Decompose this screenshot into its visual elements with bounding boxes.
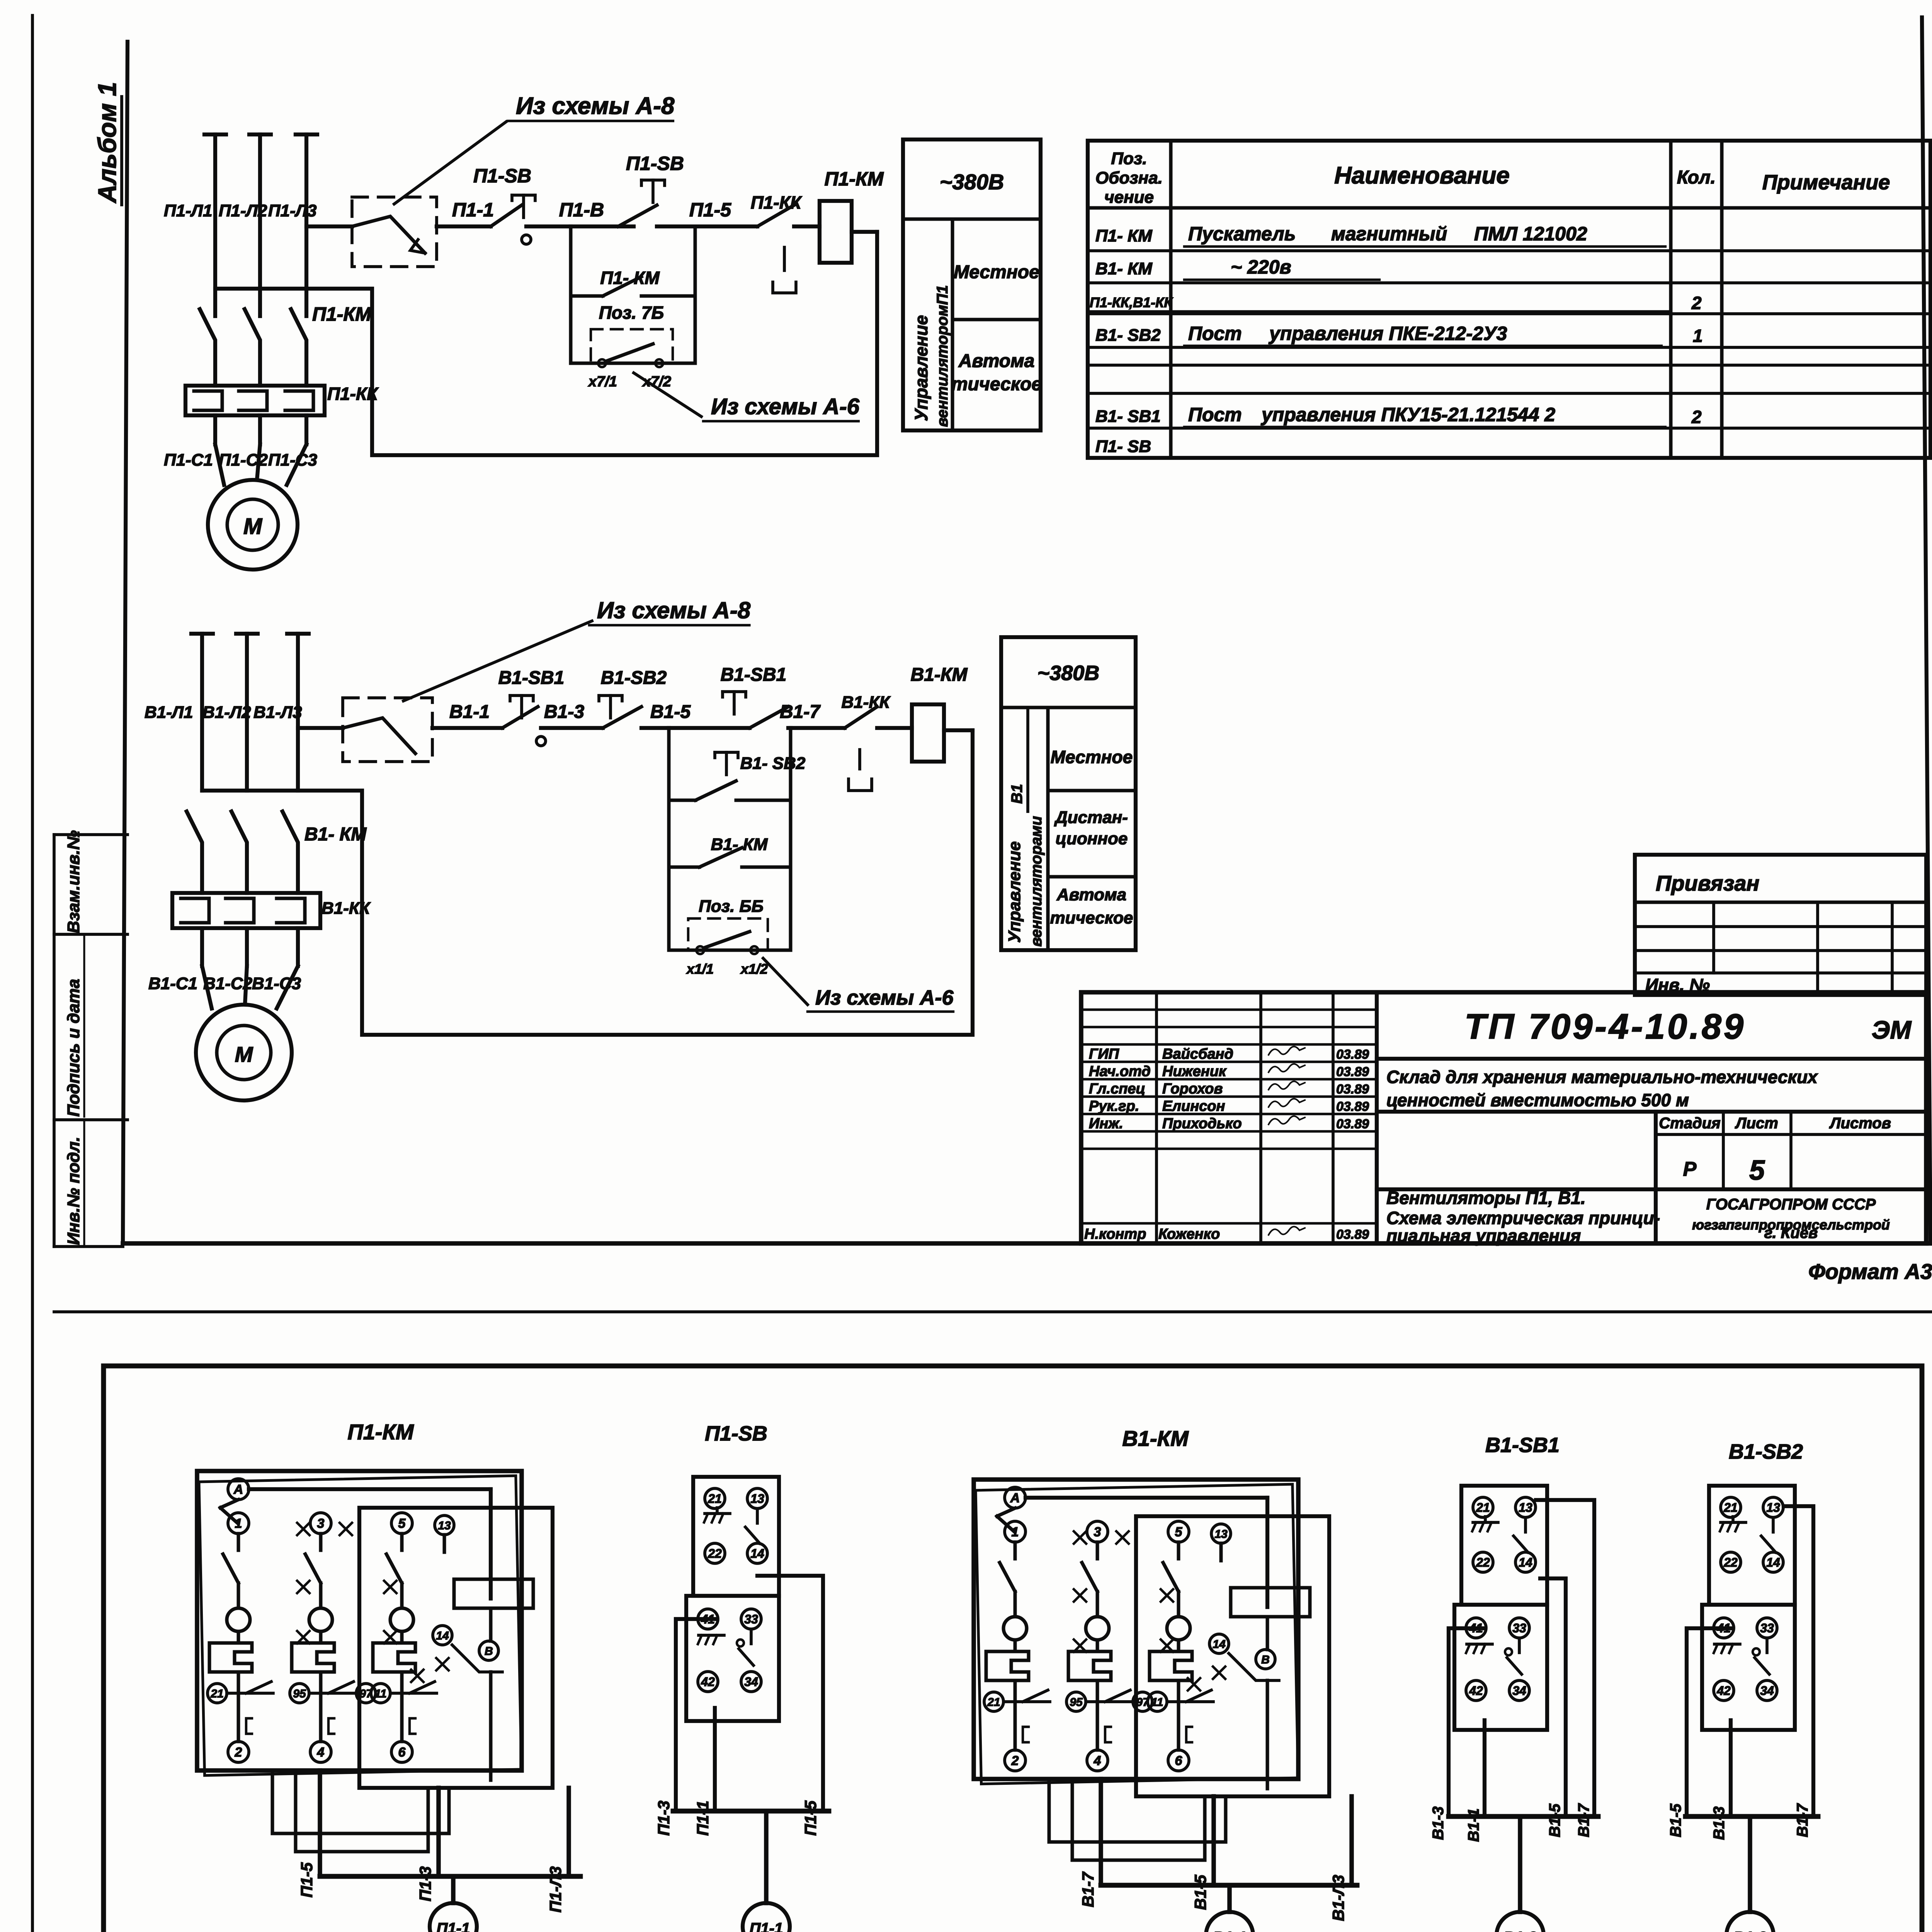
svg-text:21: 21 — [1476, 1501, 1490, 1515]
svg-text:вентиляторомП1: вентиляторомП1 — [934, 285, 951, 427]
svg-text:2: 2 — [1691, 293, 1702, 313]
svg-text:34: 34 — [744, 1675, 758, 1689]
svg-text:Коженко: Коженко — [1158, 1226, 1220, 1242]
svg-text:21: 21 — [210, 1687, 223, 1700]
svg-text:95: 95 — [1070, 1696, 1083, 1709]
svg-text:14: 14 — [1766, 1556, 1780, 1570]
svg-text:Р: Р — [1683, 1158, 1697, 1180]
svg-text:21: 21 — [987, 1696, 1000, 1709]
svg-text:Формат А3: Формат А3 — [1808, 1259, 1932, 1284]
svg-text:Склад для хранения материальн: Склад для хранения материально-техническ… — [1386, 1067, 1818, 1087]
svg-text:В1-5: В1-5 — [1667, 1803, 1684, 1837]
svg-text:97: 97 — [1136, 1696, 1150, 1709]
svg-text:ЭМ: ЭМ — [1872, 1015, 1912, 1044]
svg-text:В1- КМ: В1- КМ — [1095, 259, 1153, 278]
svg-text:97: 97 — [359, 1687, 373, 1700]
svg-text:В1-5: В1-5 — [1546, 1803, 1563, 1837]
svg-text:~ 220в: ~ 220в — [1231, 256, 1291, 278]
svg-text:М: М — [243, 514, 263, 539]
svg-text:М: М — [235, 1042, 253, 1066]
svg-text:П1-Л3: П1-Л3 — [268, 201, 316, 220]
svg-text:В1- SВ2: В1- SВ2 — [1095, 326, 1161, 345]
svg-text:В1: В1 — [1009, 784, 1026, 804]
svg-text:03.89: 03.89 — [1336, 1227, 1369, 1242]
svg-text:Вайсбанд: Вайсбанд — [1162, 1046, 1233, 1062]
svg-text:В1-SВ1: В1-SВ1 — [721, 665, 787, 685]
svg-text:Пускатель: Пускатель — [1188, 223, 1296, 245]
svg-text:13: 13 — [1214, 1528, 1228, 1541]
svg-text:В1-Л1: В1-Л1 — [145, 703, 193, 722]
svg-text:В: В — [485, 1645, 493, 1658]
svg-text:В1-7: В1-7 — [1079, 1871, 1097, 1907]
svg-text:П1-КК: П1-КК — [751, 192, 802, 213]
svg-text:х1/2: х1/2 — [740, 961, 768, 977]
svg-text:В1-Л3: В1-Л3 — [1329, 1875, 1347, 1921]
svg-text:Местное: Местное — [954, 262, 1039, 282]
svg-text:В1-КМ: В1-КМ — [1122, 1426, 1189, 1451]
svg-text:В1- КМ: В1- КМ — [304, 824, 367, 845]
svg-text:Из схемы А-8: Из схемы А-8 — [516, 93, 675, 119]
svg-text:21: 21 — [1723, 1501, 1738, 1515]
svg-text:П1-SВ: П1-SВ — [626, 153, 684, 174]
svg-text:П1-Л2: П1-Л2 — [219, 201, 267, 220]
svg-text:В1-1: В1-1 — [1213, 1929, 1247, 1932]
svg-text:Листов: Листов — [1829, 1115, 1891, 1132]
svg-text:П1-5: П1-5 — [801, 1800, 820, 1836]
svg-text:управления ПКУ15-21.121544 2: управления ПКУ15-21.121544 2 — [1260, 404, 1555, 425]
svg-text:33: 33 — [1512, 1621, 1526, 1635]
svg-text:В1-3: В1-3 — [1430, 1806, 1447, 1840]
svg-text:В1-КК: В1-КК — [321, 899, 371, 918]
svg-text:В1-3: В1-3 — [1711, 1806, 1728, 1840]
svg-text:П1-1: П1-1 — [694, 1801, 712, 1836]
svg-text:В1-2: В1-2 — [1503, 1929, 1537, 1932]
svg-text:В1-SВ1: В1-SВ1 — [1485, 1434, 1560, 1457]
svg-text:Вентиляторы П1, В1.: Вентиляторы П1, В1. — [1386, 1188, 1586, 1208]
svg-text:В1- SВ2: В1- SВ2 — [740, 754, 806, 773]
svg-text:5: 5 — [1749, 1155, 1765, 1186]
svg-text:13: 13 — [438, 1519, 451, 1532]
svg-text:В: В — [1261, 1653, 1270, 1666]
svg-text:Поз. 7Б: Поз. 7Б — [599, 303, 664, 323]
svg-text:22: 22 — [707, 1547, 722, 1561]
svg-text:03.89: 03.89 — [1336, 1047, 1369, 1062]
svg-text:Из схемы А-6: Из схемы А-6 — [815, 986, 954, 1009]
svg-text:34: 34 — [1760, 1684, 1774, 1698]
svg-text:13: 13 — [1766, 1501, 1780, 1515]
svg-text:В1-SВ2: В1-SВ2 — [1729, 1440, 1803, 1463]
svg-text:2: 2 — [1011, 1753, 1019, 1768]
svg-text:Пост: Пост — [1188, 404, 1242, 425]
svg-text:Управление: Управление — [1005, 841, 1024, 943]
svg-text:14: 14 — [1519, 1556, 1532, 1570]
svg-text:Поз. ББ: Поз. ББ — [699, 897, 764, 916]
svg-text:чение: чение — [1104, 188, 1154, 207]
svg-text:1: 1 — [1693, 326, 1703, 346]
svg-text:22: 22 — [1723, 1556, 1738, 1570]
svg-text:Нач.отд: Нач.отд — [1089, 1063, 1151, 1080]
svg-text:П1-КМ: П1-КМ — [825, 168, 884, 190]
svg-text:~380В: ~380В — [1037, 662, 1100, 685]
svg-text:П1-КК,В1-КК: П1-КК,В1-КК — [1090, 294, 1173, 310]
svg-text:42: 42 — [1716, 1684, 1731, 1698]
svg-text:В1-Л3: В1-Л3 — [253, 703, 302, 722]
svg-text:42: 42 — [1469, 1684, 1483, 1698]
svg-text:Управление: Управление — [911, 315, 931, 421]
svg-text:управления ПКЕ-212-2У3: управления ПКЕ-212-2У3 — [1268, 323, 1507, 344]
svg-text:Елинсон: Елинсон — [1162, 1098, 1225, 1114]
svg-text:тическое: тическое — [951, 374, 1042, 395]
svg-text:Обозна.: Обозна. — [1095, 168, 1163, 187]
svg-text:П1-С1: П1-С1 — [164, 451, 213, 469]
svg-text:В1-КК: В1-КК — [842, 693, 891, 712]
svg-text:33: 33 — [744, 1612, 758, 1626]
svg-text:Н.контр: Н.контр — [1084, 1226, 1146, 1242]
svg-text:В1- КМ: В1- КМ — [711, 835, 768, 854]
svg-text:В1-3: В1-3 — [1733, 1929, 1767, 1932]
svg-text:33: 33 — [1760, 1621, 1774, 1635]
svg-text:Лист: Лист — [1735, 1115, 1778, 1132]
svg-text:ционное: ционное — [1056, 829, 1128, 848]
svg-text:магнитный: магнитный — [1331, 223, 1447, 245]
svg-text:П1-КМ: П1-КМ — [347, 1420, 414, 1444]
svg-text:П1-В: П1-В — [559, 199, 604, 221]
svg-text:вентиляторами: вентиляторами — [1028, 816, 1045, 947]
svg-text:Стадия: Стадия — [1659, 1115, 1720, 1132]
svg-text:В1-КМ: В1-КМ — [911, 665, 968, 685]
svg-text:Приходько: Приходько — [1162, 1116, 1242, 1132]
svg-text:В1-3: В1-3 — [544, 702, 584, 722]
svg-text:ГИП: ГИП — [1089, 1046, 1119, 1062]
svg-text:13: 13 — [750, 1492, 764, 1506]
svg-text:Из схемы А-8: Из схемы А-8 — [597, 597, 751, 623]
svg-text:6: 6 — [398, 1745, 406, 1760]
svg-text:х7/1: х7/1 — [588, 374, 617, 390]
svg-text:П1-SВ: П1-SВ — [473, 165, 531, 187]
svg-text:П1-5: П1-5 — [689, 199, 731, 221]
svg-text:П1-SВ: П1-SВ — [705, 1422, 767, 1445]
svg-text:П1-С3: П1-С3 — [268, 451, 317, 469]
svg-text:Гл.спец: Гл.спец — [1089, 1081, 1145, 1097]
svg-text:95: 95 — [293, 1687, 306, 1700]
svg-text:П1-Л3: П1-Л3 — [546, 1866, 565, 1913]
svg-text:г. Киев: г. Киев — [1764, 1225, 1818, 1242]
svg-text:П1-КМ: П1-КМ — [312, 303, 372, 325]
svg-text:пиальная управления: пиальная управления — [1386, 1226, 1581, 1246]
svg-text:4: 4 — [317, 1745, 325, 1760]
svg-text:В1-1: В1-1 — [1465, 1808, 1482, 1842]
svg-text:Поз.: Поз. — [1111, 149, 1147, 168]
svg-text:П1-1: П1-1 — [750, 1920, 783, 1932]
svg-text:тическое: тическое — [1050, 908, 1133, 927]
svg-text:П1-3: П1-3 — [655, 1801, 673, 1836]
svg-text:Пост: Пост — [1188, 323, 1242, 344]
svg-text:ценностей вместимостью 500 м: ценностей вместимостью 500 м — [1386, 1090, 1689, 1110]
svg-text:П1-3: П1-3 — [416, 1866, 434, 1901]
svg-text:03.89: 03.89 — [1336, 1117, 1369, 1131]
svg-text:Кол.: Кол. — [1677, 167, 1716, 188]
svg-text:Привязан: Привязан — [1656, 871, 1759, 895]
svg-text:В1-С1: В1-С1 — [148, 974, 197, 993]
svg-text:Подпись и дата: Подпись и дата — [64, 979, 83, 1117]
svg-text:В1-SВ2: В1-SВ2 — [601, 668, 667, 688]
svg-text:1: 1 — [1012, 1525, 1019, 1539]
svg-text:Автома: Автома — [958, 351, 1035, 371]
svg-text:5: 5 — [1175, 1525, 1183, 1539]
svg-text:14: 14 — [1213, 1638, 1226, 1651]
svg-text:~380В: ~380В — [940, 170, 1004, 194]
svg-text:5: 5 — [398, 1516, 406, 1531]
svg-text:42: 42 — [701, 1675, 715, 1689]
svg-text:Местное: Местное — [1051, 747, 1133, 767]
svg-text:П1-1: П1-1 — [452, 199, 494, 221]
svg-text:4: 4 — [1094, 1753, 1101, 1768]
svg-text:Рук.гр.: Рук.гр. — [1089, 1098, 1139, 1114]
svg-text:В1-7: В1-7 — [1575, 1803, 1592, 1837]
svg-text:Взам.инв.№: Взам.инв.№ — [64, 830, 83, 933]
svg-text:П1-5: П1-5 — [298, 1862, 316, 1898]
svg-text:х1/1: х1/1 — [686, 961, 714, 977]
svg-text:2: 2 — [1691, 407, 1702, 427]
svg-text:П1- КМ: П1- КМ — [600, 268, 660, 288]
svg-text:14: 14 — [750, 1547, 764, 1561]
svg-text:В1-7: В1-7 — [1794, 1803, 1811, 1837]
svg-text:Дистан-: Дистан- — [1054, 808, 1128, 827]
svg-text:Ниженик: Ниженик — [1162, 1063, 1227, 1080]
svg-text:03.89: 03.89 — [1336, 1099, 1369, 1114]
svg-text:ПМЛ 121002: ПМЛ 121002 — [1474, 223, 1587, 245]
svg-text:ТП 709-4-10.89: ТП 709-4-10.89 — [1464, 1007, 1746, 1046]
svg-text:П1-Л1: П1-Л1 — [164, 201, 212, 220]
svg-text:П1- КМ: П1- КМ — [1095, 226, 1153, 245]
svg-text:П1-КК: П1-КК — [327, 384, 379, 404]
svg-text:В1-7: В1-7 — [780, 702, 821, 722]
svg-text:Примечание: Примечание — [1762, 171, 1890, 194]
svg-text:В1- SВ1: В1- SВ1 — [1095, 407, 1161, 426]
svg-text:Альбом 1: Альбом 1 — [93, 82, 121, 204]
svg-text:03.89: 03.89 — [1336, 1065, 1369, 1079]
svg-text:2: 2 — [235, 1745, 242, 1760]
svg-text:Инв.№ подл.: Инв.№ подл. — [64, 1137, 83, 1245]
svg-text:В1-SВ1: В1-SВ1 — [498, 668, 565, 688]
svg-text:22: 22 — [1476, 1556, 1490, 1570]
svg-text:3: 3 — [1094, 1525, 1101, 1539]
svg-text:В1-5: В1-5 — [650, 702, 691, 722]
svg-text:1: 1 — [235, 1516, 242, 1531]
svg-text:Горохов: Горохов — [1162, 1081, 1223, 1097]
svg-text:А: А — [233, 1482, 243, 1497]
svg-text:21: 21 — [707, 1492, 722, 1506]
svg-text:34: 34 — [1512, 1684, 1526, 1698]
svg-text:П1- SВ: П1- SВ — [1095, 437, 1151, 456]
svg-text:В1-Л2: В1-Л2 — [202, 703, 251, 722]
svg-text:Инж.: Инж. — [1089, 1116, 1123, 1132]
svg-text:П1-1: П1-1 — [437, 1920, 470, 1932]
svg-text:В1-1: В1-1 — [449, 702, 490, 722]
svg-text:6: 6 — [1175, 1753, 1183, 1768]
svg-text:03.89: 03.89 — [1336, 1082, 1369, 1097]
svg-text:3: 3 — [317, 1516, 325, 1531]
svg-text:В1-5: В1-5 — [1191, 1874, 1209, 1910]
svg-text:Из схемы А-6: Из схемы А-6 — [711, 394, 860, 419]
svg-text:ГОСАГРОПРОМ СССР: ГОСАГРОПРОМ СССР — [1706, 1196, 1876, 1213]
svg-text:Наименование: Наименование — [1334, 162, 1510, 189]
svg-text:Автома: Автома — [1056, 885, 1126, 904]
svg-text:Схема электрическая принци-: Схема электрическая принци- — [1386, 1208, 1660, 1228]
svg-text:А: А — [1010, 1491, 1020, 1505]
svg-text:13: 13 — [1519, 1501, 1532, 1515]
svg-text:14: 14 — [436, 1629, 449, 1642]
